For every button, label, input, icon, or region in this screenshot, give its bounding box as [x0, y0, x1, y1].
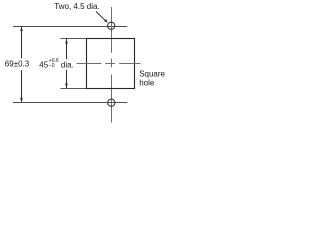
svg-text:hole: hole: [139, 79, 155, 88]
vertical centerline (center dash of square cross): [111, 59, 113, 68]
svg-text:Square: Square: [139, 69, 165, 78]
square horizontal centerline left dash: [77, 63, 102, 65]
svg-text:Two, 4.5 dia.: Two, 4.5 dia.: [54, 2, 99, 11]
top extension line (square top edge extended left): [60, 38, 86, 40]
svg-text:−0: −0: [49, 63, 55, 69]
square hole outline: [87, 39, 135, 89]
leader arrow to top mounting hole: [96, 12, 108, 23]
svg-text:dia.: dia.: [61, 61, 74, 70]
bottom hole horizontal centerline: [13, 102, 127, 104]
vertical centerline (lower section through square bottom and bottom hole): [111, 75, 113, 123]
top hole horizontal centerline: [13, 26, 127, 28]
svg-text:45: 45: [39, 61, 48, 70]
69 dimension line upper segment with up arrow: [20, 27, 23, 59]
bottom extension line (square bottom edge extended left): [60, 88, 86, 90]
label: Square hole: [139, 69, 165, 87]
69 dimension line lower segment with down arrow: [20, 70, 23, 103]
45 dimension line lower segment with down arrow: [65, 70, 68, 89]
bottom mounting hole circle: [108, 99, 115, 106]
vertical centerline (top section through hole and square top): [111, 7, 113, 53]
label: 45 +0.6/-0 dia.: [39, 58, 74, 70]
square horizontal centerline right dash: [119, 63, 140, 65]
top mounting hole circle: [108, 22, 115, 29]
svg-text:69±0.3: 69±0.3: [5, 59, 30, 68]
45 dimension line upper segment with up arrow: [65, 39, 68, 60]
square horizontal centerline center dash: [105, 63, 115, 65]
